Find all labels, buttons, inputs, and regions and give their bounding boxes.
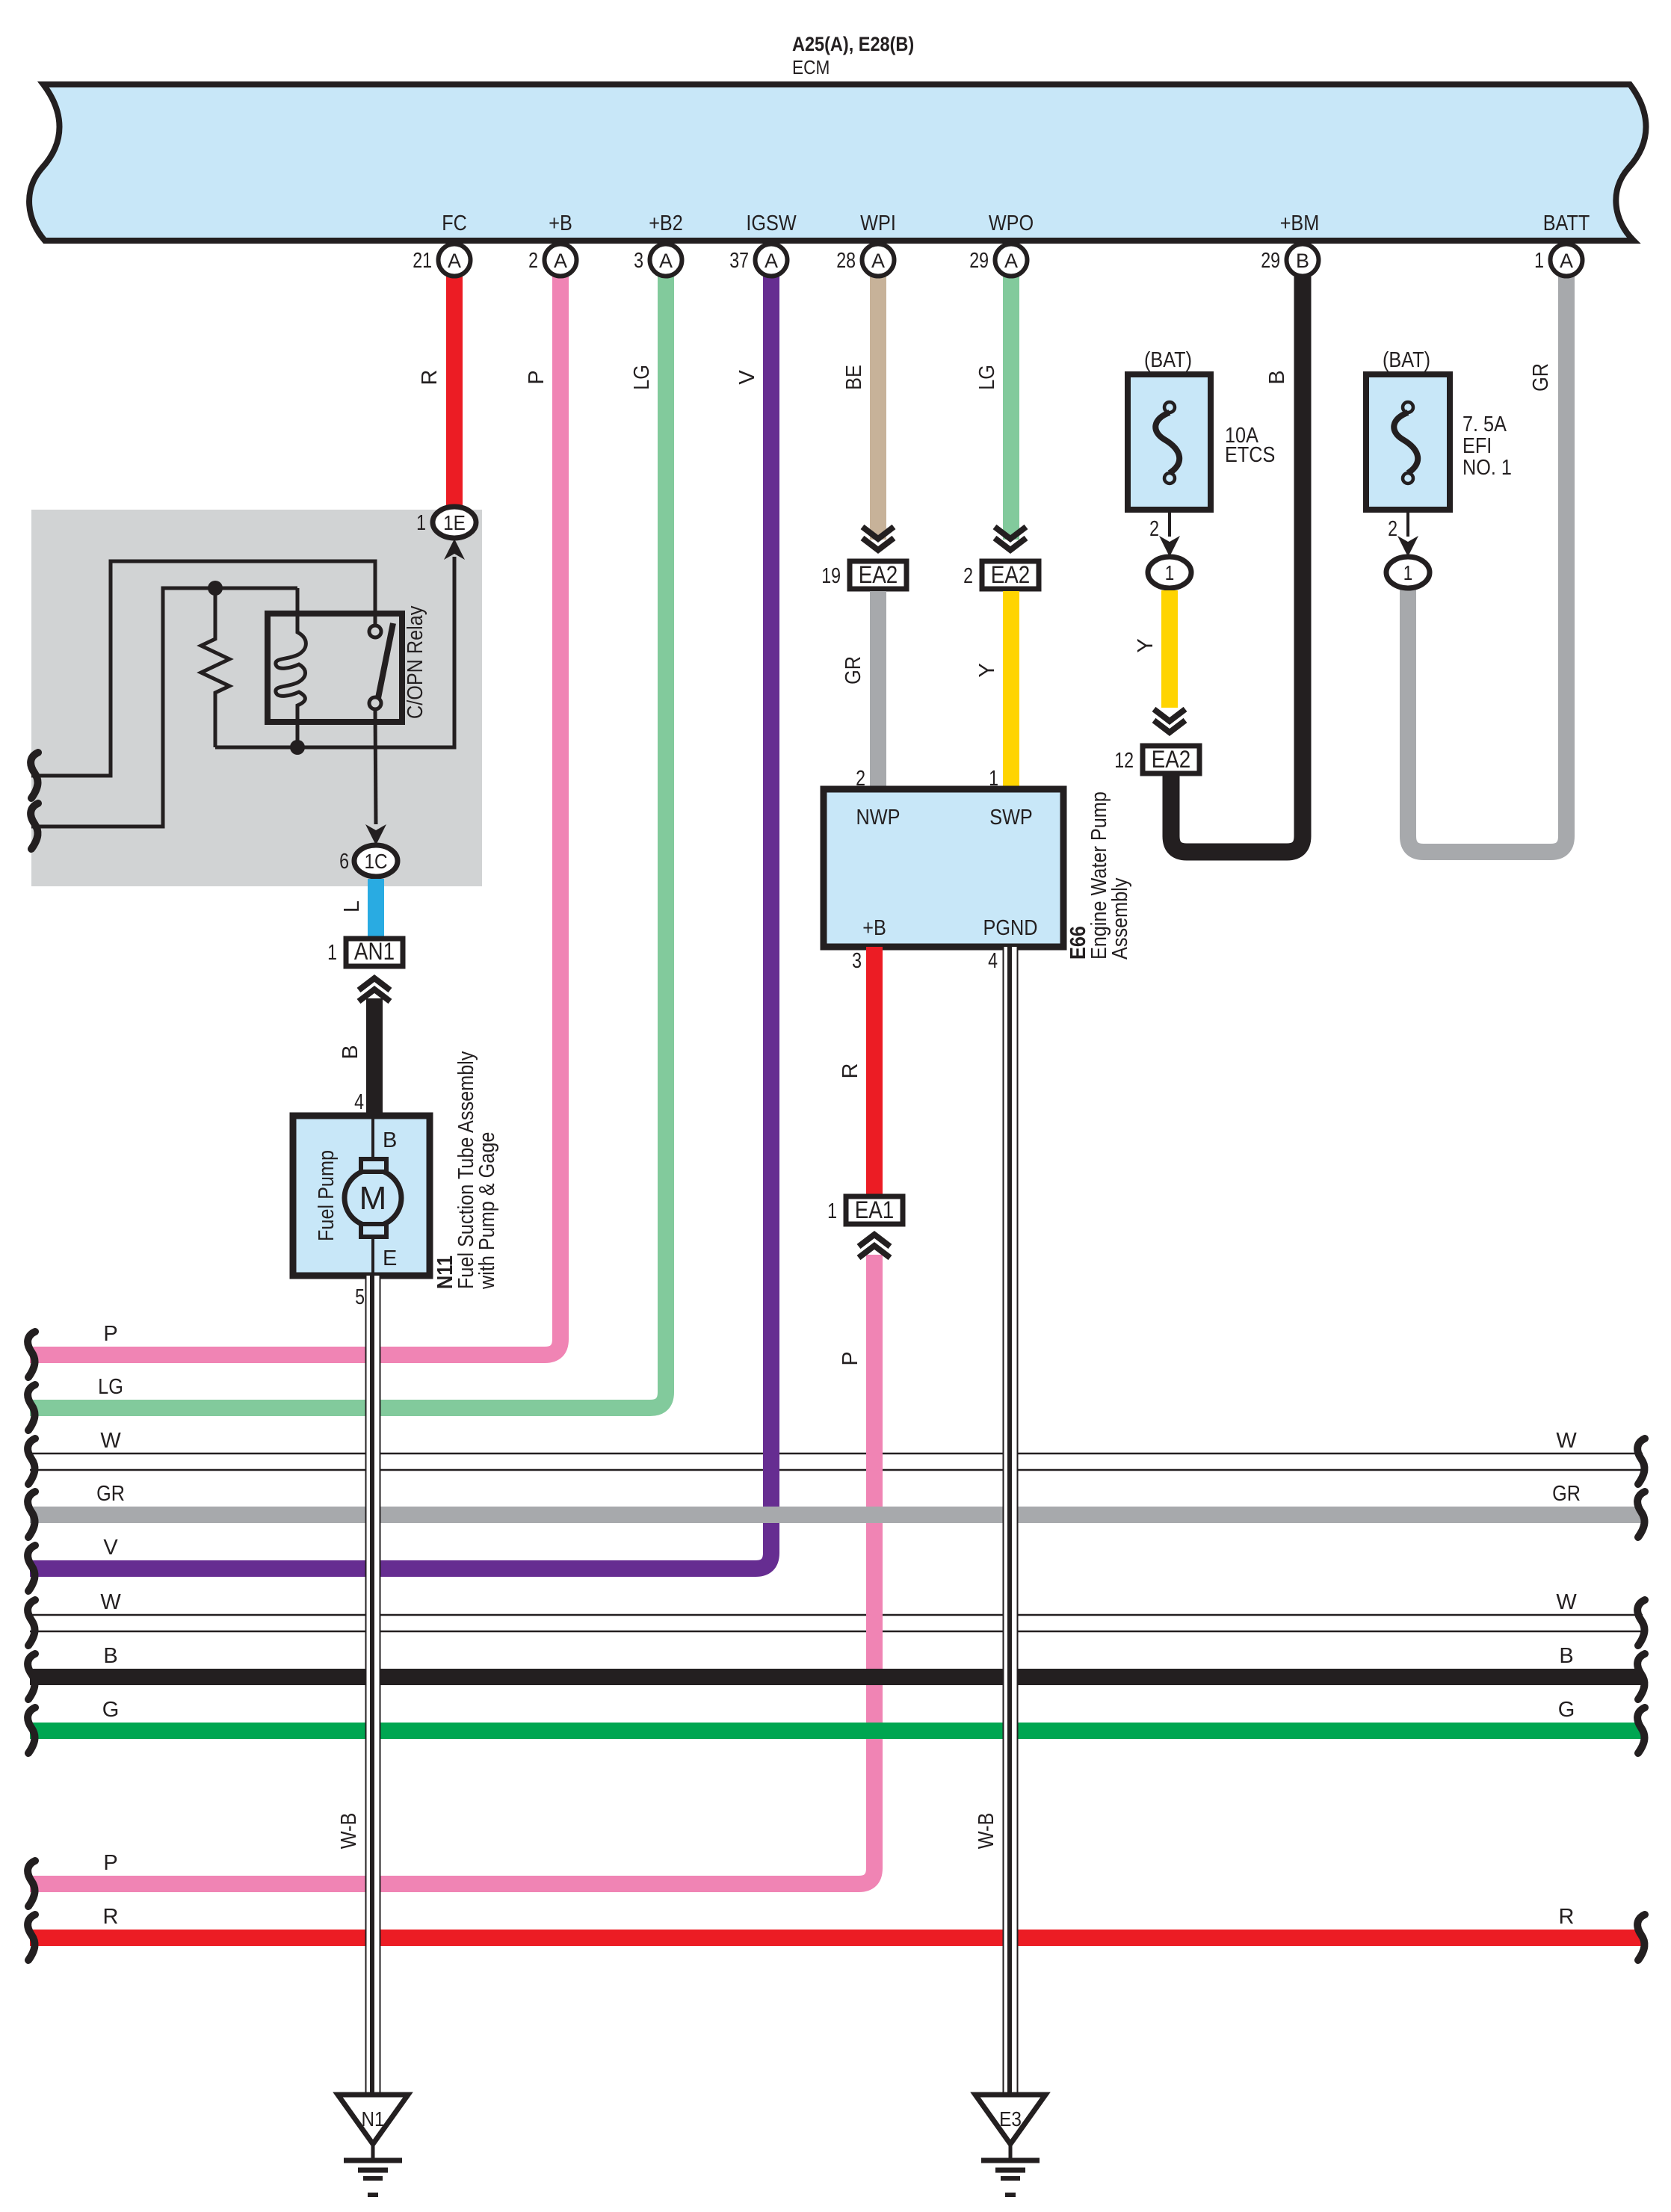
svg-text:N1: N1 [361,2107,384,2131]
oval 1 [1386,557,1430,588]
wire from relay switch to 1E [215,557,454,747]
svg-text:W-B: W-B [337,1813,361,1850]
pin 29 A WPO [995,244,1028,276]
fuse output wire [1406,510,1409,537]
wire break W bus 2 left [28,1600,35,1646]
wire break B bus right [1637,1654,1645,1699]
svg-text:1: 1 [327,941,337,965]
svg-text:2: 2 [1149,517,1159,541]
svg-text:LG: LG [630,365,654,390]
svg-text:B: B [383,1128,397,1152]
svg-text:V: V [735,370,759,385]
C/OPN relay box [268,614,402,722]
junction node coil bottom [290,740,305,755]
svg-text:Y: Y [1134,638,1158,652]
svg-text:29: 29 [969,249,989,273]
arrow down into 1C [365,824,386,845]
engine water pump assembly box E66 [824,789,1063,947]
svg-text:+B2: +B2 [649,211,683,235]
svg-text:EFI: EFI [1462,434,1492,458]
svg-text:E: E [383,1246,397,1270]
svg-text:+BM: +BM [1280,211,1320,235]
svg-text:37: 37 [729,249,749,273]
svg-text:B: B [1559,1644,1573,1668]
svg-text:Assembly: Assembly [1108,877,1132,960]
svg-text:NO. 1: NO. 1 [1462,456,1512,480]
svg-text:AN1: AN1 [354,938,395,965]
svg-text:29: 29 [1261,249,1280,273]
fuel pump box N11 [293,1116,430,1276]
svg-text:A: A [1004,250,1018,272]
svg-text:P: P [838,1351,862,1365]
svg-text:PGND: PGND [983,916,1038,940]
svg-text:A: A [448,250,461,272]
wire break G bus right [1637,1708,1645,1753]
wire B: left break to coil top [31,588,297,827]
svg-text:M: M [359,1180,387,1217]
svg-text:BE: BE [842,365,866,390]
svg-text:WPO: WPO [989,211,1034,235]
junction node on wire B [208,581,223,596]
svg-text:28: 28 [836,249,856,273]
ECM A25(A), E28(B) box [29,84,1646,241]
arrow down [1159,536,1180,557]
bus B black [30,1669,1643,1685]
svg-text:IGSW: IGSW [746,211,797,235]
wire break B bus left [28,1654,35,1699]
break symbol relay wire B [31,803,38,849]
svg-text:GR: GR [1552,1482,1581,1506]
svg-text:1C: 1C [364,850,387,873]
wire L blue [368,879,384,939]
switch contact bottom [369,697,381,709]
svg-text:19: 19 [821,564,841,588]
svg-text:B: B [1265,370,1289,384]
connector EA2 pin 12 [1143,746,1199,773]
wire +B2 light green LG to LG bus [30,274,666,1408]
svg-text:LG: LG [98,1375,123,1399]
chevrons up into AN1 [359,978,390,1001]
white bus W2 [30,1615,1643,1631]
svg-text:21: 21 [413,249,432,273]
svg-text:W-B: W-B [975,1813,998,1850]
svg-text:B: B [1296,250,1309,272]
wire R red +B pump [866,947,883,1196]
connector EA2 pin 2 [995,527,1026,550]
wire break LG bus left [28,1385,35,1430]
wire B black to fuel pump [366,998,383,1116]
connector oval 1C pin 6 [354,845,398,877]
svg-text:A: A [765,250,778,272]
svg-text:+B: +B [549,211,572,235]
svg-text:2: 2 [963,564,973,588]
svg-text:A: A [659,250,673,272]
pin 37 A IGSW [756,244,788,276]
ground E3 [975,2095,1045,2195]
svg-text:7. 5A: 7. 5A [1462,413,1507,436]
svg-text:ECM: ECM [792,56,830,78]
svg-text:R: R [103,1905,119,1929]
oval 1 [1148,557,1191,588]
svg-text:W: W [1556,1590,1577,1614]
switch blade [378,623,393,698]
svg-text:SWP: SWP [989,806,1033,829]
resistor in relay block [201,588,229,747]
wire break R bus right [1637,1915,1645,1960]
svg-text:B: B [103,1644,117,1668]
connector AN1 pin 1 [346,939,403,966]
relay coil [276,588,306,747]
wire +BM black B U-turn to EA2-12 [1171,274,1303,852]
relay block gray background [31,510,482,886]
svg-text:V: V [103,1536,118,1560]
wire break W bus right [1637,1439,1645,1484]
wire break R bus left [28,1915,35,1960]
svg-text:WPI: WPI [860,211,896,235]
wire break P bus 2 left [28,1861,35,1906]
svg-text:G: G [1558,1698,1575,1722]
svg-text:R: R [838,1063,862,1079]
wire Y yellow fuse to EA2-12 [1161,590,1178,708]
wire break V bus left [28,1545,35,1591]
svg-text:E3: E3 [999,2107,1022,2131]
svg-text:C/OPN Relay: C/OPN Relay [404,605,427,719]
svg-text:1: 1 [827,1199,837,1223]
svg-text:W: W [1556,1429,1577,1453]
wire BATT gray GR U-turn to fuse EFI [1408,274,1566,852]
wire A: left break to switch top [31,561,375,776]
svg-text:Fuel Pump: Fuel Pump [315,1150,339,1241]
svg-text:+B: +B [862,916,886,940]
wire break W bus 2 right [1637,1600,1645,1646]
svg-text:5: 5 [355,1285,365,1309]
svg-text:3: 3 [852,949,862,973]
svg-text:G: G [102,1698,120,1722]
svg-text:W: W [100,1590,121,1614]
pin 21 A FC [439,244,471,276]
svg-text:Y: Y [975,663,999,677]
ground N1 [338,2095,408,2195]
svg-text:(BAT): (BAT) [1383,348,1430,372]
svg-text:GR: GR [1529,363,1553,392]
wire switch to 1C [375,708,376,824]
white bus W1 [30,1453,1643,1470]
wire W-B PGND to ground E3 [1004,947,1018,2095]
svg-text:EA2: EA2 [859,561,898,588]
wire Y yellow to SWP [1003,591,1019,790]
motor M [345,1170,401,1226]
switch contact top [369,625,381,637]
svg-text:1: 1 [416,511,426,535]
svg-text:W: W [100,1429,121,1453]
wire W-B fuel pump to ground N1 [366,1276,380,2095]
svg-text:A: A [871,250,885,272]
svg-text:4: 4 [354,1090,364,1114]
svg-text:A: A [554,250,567,272]
svg-text:P: P [103,1322,117,1346]
svg-text:A25(A), E28(B): A25(A), E28(B) [792,33,914,55]
svg-text:1: 1 [1403,561,1413,584]
svg-text:2: 2 [528,249,538,273]
svg-text:GR: GR [841,656,865,685]
arrow down [1397,536,1418,557]
bus G green [30,1723,1643,1739]
svg-text:L: L [340,900,364,912]
wire EA1 pink P to P bus [30,1255,874,1884]
pump internal wire [371,1116,374,1276]
pin 29 B +BM [1287,244,1319,276]
svg-text:1: 1 [1534,249,1544,273]
connector EA1 pin 1 [846,1196,903,1224]
brush bottom [361,1224,386,1237]
bus GR gray [30,1507,1643,1523]
pin 3 A +B2 [650,244,682,276]
fuse output wire [1168,510,1171,537]
svg-text:(BAT): (BAT) [1144,348,1192,372]
chevrons down into EA2-12 [1154,709,1185,732]
wire break G bus left [28,1708,35,1753]
svg-text:B: B [339,1045,362,1059]
svg-text:R: R [418,370,442,386]
svg-text:EA2: EA2 [991,561,1031,588]
svg-text:EA2: EA2 [1152,746,1191,773]
svg-text:6: 6 [339,850,349,874]
svg-text:R: R [1559,1905,1575,1929]
bus R red [30,1930,1643,1946]
svg-text:with Pump & Gage: with Pump & Gage [475,1132,499,1290]
wire WPI beige BE [870,274,886,540]
svg-text:FC: FC [442,211,467,235]
pin 28 A WPI [862,244,895,276]
svg-text:3: 3 [634,249,643,273]
svg-text:EA1: EA1 [855,1196,895,1223]
svg-text:GR: GR [96,1482,125,1506]
connector EA2 pin 19 [862,527,894,550]
svg-text:NWP: NWP [856,806,901,829]
wire IGSW violet V [30,274,771,1569]
wire +B pink P to P bus [30,274,560,1355]
wire break GR bus left [28,1492,35,1537]
pin 2 A +B [545,244,577,276]
brush top [361,1159,386,1172]
wire break P bus left [28,1332,35,1377]
arrow up into 1E [444,539,465,560]
wire break W bus left [28,1439,35,1484]
wire FC red R [446,274,463,508]
connector oval 1E pin 1 [433,507,476,538]
svg-text:LG: LG [975,365,999,390]
svg-text:12: 12 [1114,749,1134,773]
wire GR gray to NWP [870,591,886,790]
svg-text:P: P [525,370,549,384]
svg-text:P: P [103,1851,117,1875]
break symbol relay wire A [31,753,38,798]
chevrons up into EA1 [859,1235,890,1258]
wire break GR bus right [1637,1492,1645,1537]
svg-text:1: 1 [1165,561,1175,584]
svg-text:1E: 1E [443,511,466,534]
svg-text:2: 2 [1388,517,1397,541]
svg-text:A: A [1560,250,1573,272]
svg-text:ETCS: ETCS [1225,443,1275,467]
svg-text:BATT: BATT [1543,211,1590,235]
wire WPO light green LG [1003,274,1019,540]
pin 1 A BATT [1551,244,1583,276]
svg-text:4: 4 [988,949,998,973]
